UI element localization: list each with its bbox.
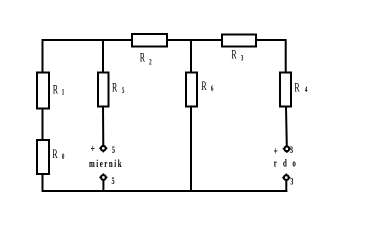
svg-text:r: r: [274, 157, 277, 169]
svg-text:o: o: [292, 157, 296, 169]
resistor R2: [132, 34, 167, 47]
wire R5 branch top drop: [102, 39, 104, 73]
svg-text:R: R: [53, 84, 58, 97]
svg-text:5: 5: [112, 176, 115, 187]
wire R5 to terminal 5: [102, 107, 104, 146]
wire left branch drop: [42, 39, 44, 73]
wire R4 to terminal 3: [285, 107, 288, 146]
terminal node 3 upper: [283, 145, 291, 153]
svg-text:R: R: [231, 49, 236, 62]
resistor R4: [280, 73, 291, 107]
svg-text:1: 1: [62, 88, 65, 96]
svg-text:2: 2: [149, 59, 152, 67]
svg-text:6: 6: [211, 85, 214, 93]
terminal node 3 lower: [282, 174, 290, 182]
terminal node 5 upper: [99, 144, 107, 152]
wire lower terminal 3 to bottom rail: [285, 180, 287, 192]
wire lower terminal 5 to bottom rail: [102, 180, 104, 192]
svg-text:R: R: [294, 82, 299, 95]
svg-text:3: 3: [290, 176, 293, 187]
wire right branch drop: [285, 39, 287, 73]
resistor R0: [37, 140, 49, 174]
wire R6 branch top drop: [190, 39, 192, 73]
resistor R3: [222, 35, 256, 47]
wire top segment right (R3 to top-right corner): [256, 39, 287, 41]
svg-text:4: 4: [305, 86, 308, 94]
svg-text:miernik: miernik: [89, 157, 123, 169]
wire bottom rail: [42, 190, 288, 192]
svg-text:+: +: [91, 143, 96, 156]
svg-text:5: 5: [122, 87, 125, 95]
svg-text:R: R: [201, 80, 206, 93]
svg-text:3: 3: [241, 55, 244, 63]
wire R0 to bottom rail: [42, 174, 44, 191]
resistor R1: [37, 73, 49, 109]
wire top segment left (node A to R2): [42, 39, 133, 41]
svg-text:R: R: [140, 52, 145, 65]
svg-text:R: R: [112, 82, 117, 95]
terminal node 5 lower: [99, 173, 107, 181]
svg-text:d: d: [283, 157, 287, 169]
svg-text:+: +: [274, 145, 279, 158]
resistor R5: [98, 73, 109, 107]
resistor R6: [186, 73, 197, 107]
wire top segment middle (R2 to R3 via node B): [167, 39, 222, 41]
wire R6 to bottom rail: [190, 107, 192, 192]
svg-text:R: R: [52, 148, 57, 161]
svg-text:5: 5: [112, 145, 115, 156]
svg-text:3: 3: [290, 145, 293, 156]
svg-text:0: 0: [62, 153, 65, 161]
wire between R1 and R0: [42, 108, 44, 141]
